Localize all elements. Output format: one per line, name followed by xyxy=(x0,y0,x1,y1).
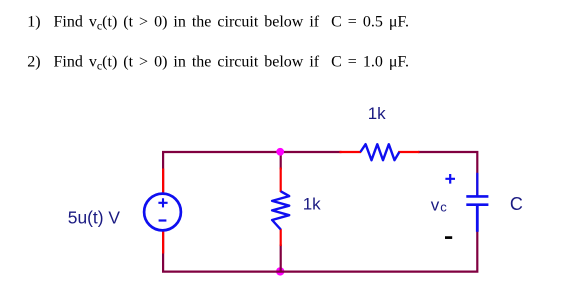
svg-text:5u(t) V: 5u(t) V xyxy=(68,207,121,227)
svg-text:C: C xyxy=(510,194,523,214)
capacitor C top lead blue xyxy=(476,173,478,196)
wire red middle resistor top lead xyxy=(280,168,282,193)
problem text line 2 xyxy=(27,53,409,72)
capacitor plus polarity mark xyxy=(445,174,455,184)
wire red top resistor left lead xyxy=(340,151,362,153)
svg-text:1k: 1k xyxy=(303,195,321,214)
svg-text:2)Find vc(t) (t > 0) in the ci: 2)Find vc(t) (t > 0) in the circuit belo… xyxy=(27,53,409,72)
node B junction dot (bottom) xyxy=(276,267,284,275)
node A junction dot (top) xyxy=(276,148,284,156)
wire maroon middle branch lower stub xyxy=(280,245,282,273)
svg-text:1k: 1k xyxy=(368,104,386,123)
svg-text:c: c xyxy=(440,200,447,215)
voltage source minus sign xyxy=(159,219,167,221)
resistor R1 value label 1k xyxy=(303,195,321,214)
svg-text:1)Find vc(t) (t > 0) in the ci: 1)Find vc(t) (t > 0) in the circuit belo… xyxy=(27,14,409,33)
wire maroon middle branch upper stub xyxy=(280,151,282,170)
wire red source top lead xyxy=(162,169,164,194)
wire maroon loop: top-left, left side, bottom, right-bottom xyxy=(163,152,477,272)
wire red source bottom lead xyxy=(162,231,164,254)
wire red top resistor right lead xyxy=(398,151,419,153)
wire maroon top-right segment and right-top drop xyxy=(418,152,477,196)
voltage source V1 circle xyxy=(144,194,181,231)
capacitor vc label xyxy=(431,195,448,214)
voltage source label 5u(t) V xyxy=(68,207,121,227)
capacitor C bottom lead blue xyxy=(476,205,479,232)
svg-text:v: v xyxy=(431,195,440,214)
capacitor minus polarity mark (black) xyxy=(445,236,452,239)
resistor R2 value label 1k xyxy=(368,104,386,123)
wire red middle resistor bottom lead xyxy=(280,229,282,246)
resistor R1 1k vertical zigzag xyxy=(272,191,289,229)
capacitor name label C xyxy=(510,194,523,214)
resistor R2 1k horizontal zigzag xyxy=(360,144,399,160)
voltage source plus sign xyxy=(158,198,167,207)
capacitor C bottom plate xyxy=(466,203,488,206)
capacitor C top plate xyxy=(466,195,488,198)
problem text line 1 xyxy=(27,14,409,33)
